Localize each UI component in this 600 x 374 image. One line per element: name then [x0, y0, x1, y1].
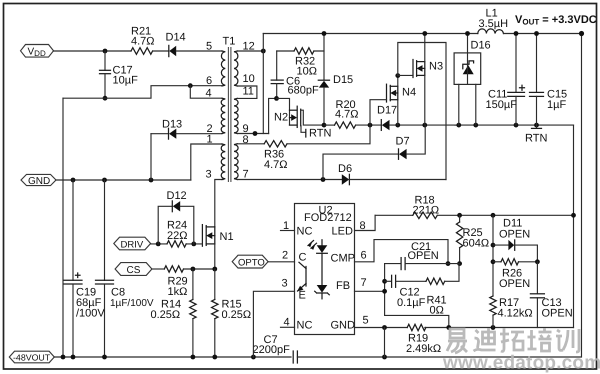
svg-text:E: E [299, 290, 306, 302]
svg-text:RTN: RTN [309, 128, 331, 140]
node junction R18/R17 column [491, 213, 496, 218]
diode D14 [166, 31, 186, 56]
node junction DRIV/D12 left [156, 242, 161, 247]
svg-text:N1: N1 [220, 231, 234, 243]
node junction VDD/C17 [103, 49, 108, 54]
wire R32 right to rail stub [314, 34, 324, 52]
svg-text:3: 3 [282, 278, 288, 290]
node junction CS/R15/N1 [212, 267, 217, 272]
svg-text:RTN: RTN [525, 133, 547, 145]
svg-text:D13: D13 [162, 119, 182, 131]
node junction rail/C19 [71, 355, 76, 360]
wire VOUT rail right of L1 [504, 33, 582, 35]
svg-text:2: 2 [282, 250, 288, 262]
node junction pin12 [261, 49, 266, 54]
resistor R24 [167, 220, 187, 248]
resistor R15 [212, 269, 252, 357]
svg-text:4.12kΩ: 4.12kΩ [498, 308, 533, 320]
svg-text:7: 7 [361, 277, 367, 289]
svg-text:7: 7 [243, 169, 249, 181]
node junction C15 top/VOUT rail [534, 31, 539, 36]
svg-text:1kΩ: 1kΩ [168, 286, 188, 298]
node GND flag [21, 174, 56, 187]
node junction N4 source/rail [395, 123, 400, 128]
wire U2 pin8 LED to R18 [355, 215, 376, 232]
node junction N3 drain/VOUT rail [422, 31, 427, 36]
wire GND row down branch [384, 328, 386, 358]
transistor N2 [274, 98, 301, 127]
diode D15 [318, 51, 353, 125]
capacitor C15 [530, 34, 568, 126]
ground RTN below C15 [525, 125, 547, 144]
node junction R32/VOUT rail [322, 31, 327, 36]
resistor R21 [131, 26, 155, 55]
svg-text:FB: FB [336, 280, 350, 292]
watermark line 1 [447, 328, 579, 353]
wire CS to R29 [152, 268, 164, 270]
capacitor C6 [271, 51, 319, 98]
node junction C11 bottom [514, 123, 519, 128]
node junction GND/D13 [149, 178, 154, 183]
transistor N1 [202, 225, 233, 247]
wire pin4 branch [190, 86, 222, 99]
capacitor C13 [530, 262, 572, 328]
svg-text:C8: C8 [111, 287, 125, 299]
node junction R18/R25 [457, 213, 462, 218]
resistor R26 [493, 259, 537, 290]
svg-text:C: C [299, 252, 307, 264]
wire VOUT rail [263, 33, 478, 35]
node junction rail/U2 pin5 branch [382, 355, 387, 360]
svg-text:D12: D12 [167, 190, 187, 202]
diode D6 [338, 163, 446, 185]
svg-text:10: 10 [243, 73, 255, 85]
capacitor C19 [64, 180, 105, 357]
wire pin12 down to pin9 row [262, 51, 264, 134]
wire U2 pin3 E down to -48V rail [253, 278, 294, 358]
wire R21 to D14 [153, 50, 169, 52]
svg-text:www.edatop.com: www.edatop.com [442, 353, 600, 374]
svg-text:4: 4 [206, 88, 212, 100]
node junction C12 row left [382, 279, 387, 284]
svg-text:680pF: 680pF [288, 84, 319, 96]
wire N3 source down to rail [424, 75, 426, 125]
svg-text:6: 6 [361, 250, 367, 262]
node junction C17 bottom [103, 96, 108, 101]
resistor R20 [324, 99, 359, 128]
svg-text:0.25Ω: 0.25Ω [222, 309, 252, 321]
svg-text:OPEN: OPEN [542, 308, 573, 320]
svg-text:1µF/100V: 1µF/100V [110, 298, 154, 309]
node junction CMP/C21 row [446, 261, 451, 266]
node junction D16 right leg [473, 123, 478, 128]
node -48VOUT flag [9, 351, 54, 363]
node junction D16 left leg [456, 123, 461, 128]
svg-text:4.7Ω: 4.7Ω [335, 108, 359, 120]
svg-text:5: 5 [363, 315, 369, 327]
diode D12 [167, 190, 187, 212]
node junction D11 row [491, 243, 496, 248]
node junction rail/left vertical [61, 355, 66, 360]
inductor L1 [478, 8, 508, 34]
svg-text:10µF: 10µF [113, 75, 139, 87]
wire N4 source down [397, 100, 399, 125]
capacitor C21 [385, 241, 460, 270]
wire -48V rail left of C7 [54, 356, 291, 358]
LED inside U2 [321, 240, 323, 245]
wire N3 gate lead [398, 74, 413, 76]
svg-text:T1: T1 [223, 36, 236, 48]
ground RTN at N2 source [301, 126, 332, 140]
wire D12 loop right [180, 206, 194, 244]
wire pin9 up-jog to C6 node [269, 98, 277, 133]
wire N4 drain up [397, 76, 399, 87]
wire VDD row to R21 [54, 50, 132, 52]
wire R18 right to RTN column [437, 214, 573, 216]
node junction N2 drain/D15/R20 [322, 123, 327, 128]
resistor R41 [426, 264, 459, 317]
wire U2 pin1 stub [281, 220, 295, 232]
wire DRIV to R24 [151, 243, 167, 245]
capacitor C7 [253, 334, 298, 363]
svg-text:0.1µF: 0.1µF [397, 297, 426, 309]
svg-text:CS: CS [127, 265, 141, 276]
svg-text:NC: NC [297, 226, 313, 238]
svg-text:604Ω: 604Ω [463, 238, 490, 250]
svg-text:FOD2712: FOD2712 [304, 212, 352, 224]
node VDD flag [21, 45, 54, 58]
node junction N4 drain/N3 gate [395, 73, 400, 78]
node junction pin6/pin4 jog [188, 83, 193, 88]
svg-text:150µF: 150µF [486, 99, 518, 111]
capacitor C11 [486, 34, 525, 126]
wire pin12 row [237, 50, 263, 52]
node junction pin7/D7 branch [321, 177, 326, 182]
diode D16 module [454, 34, 491, 126]
wire left long vertical to -48V rail [62, 98, 64, 357]
svg-text:/100V: /100V [76, 308, 105, 320]
svg-text:N3: N3 [429, 61, 443, 73]
op-amp U2 FOD2712 optocoupler [295, 204, 356, 335]
resistor R29 [164, 266, 187, 298]
wire N4 gate lead [370, 100, 387, 125]
wire U2 pin5 GND row left [355, 315, 408, 328]
wire R36 to rail junction [287, 125, 370, 144]
node CS flag [115, 263, 152, 276]
svg-text:OPEN: OPEN [499, 278, 530, 290]
node junction C6 bottom [274, 96, 279, 101]
svg-text:D7: D7 [396, 136, 410, 148]
svg-text:LED: LED [332, 226, 353, 238]
svg-text:2.49kΩ: 2.49kΩ [406, 343, 441, 355]
svg-text:GND: GND [331, 320, 356, 332]
wire pin8 row to R36 [237, 143, 264, 145]
node junction R18/RTN column [571, 213, 576, 218]
svg-text:NC: NC [297, 320, 313, 332]
wire N3 gate over to D6 column [398, 43, 446, 180]
wire T1 pin3 to N1 drain [215, 180, 223, 227]
svg-text:1: 1 [283, 220, 289, 232]
svg-text:DRIV: DRIV [121, 239, 144, 250]
svg-text:OPEN: OPEN [499, 229, 530, 241]
capacitor C12 [385, 275, 426, 309]
svg-text:GND: GND [28, 176, 50, 187]
wire pin7 row [237, 179, 341, 181]
wire RTN rail down right side [573, 125, 575, 327]
svg-text:N4: N4 [402, 87, 416, 99]
svg-text:4.7Ω: 4.7Ω [131, 36, 155, 48]
svg-text:1: 1 [207, 134, 213, 146]
wire D14 to T1 pin5 [176, 50, 222, 52]
node junction rail/C8 [102, 355, 107, 360]
node junction R26 row [491, 259, 496, 264]
node junction C15 bottom [534, 123, 539, 128]
svg-text:D17: D17 [377, 105, 397, 117]
svg-text:3.5µH: 3.5µH [479, 18, 509, 30]
node junction N3 source/D7/rail [422, 123, 427, 128]
diode D13 [151, 119, 222, 140]
wire -48V rail right of C7 to VOUT column [297, 34, 581, 358]
node junction GND/C19 [71, 178, 76, 183]
wire RTN rail right part [455, 124, 574, 126]
wire N2 drain to rail node [301, 110, 324, 125]
wire C21 left corner down [384, 264, 386, 316]
phototransistor inside U2 [305, 267, 307, 287]
svg-text:D16: D16 [471, 40, 491, 52]
resistor R25 [456, 215, 489, 263]
resistor R17 [490, 215, 533, 327]
node junction pin9 [253, 131, 258, 136]
transistor N4 [387, 84, 417, 102]
diode D7 [323, 125, 425, 179]
wire FB jog down to GND row [385, 315, 449, 327]
svg-text:OPEN: OPEN [408, 250, 439, 262]
svg-text:5: 5 [206, 41, 212, 53]
resistor R18 [413, 195, 440, 219]
svg-text:3: 3 [206, 169, 212, 181]
svg-text:OPTO: OPTO [238, 257, 265, 268]
wire D12 loop left [158, 206, 172, 244]
wire R18 row [375, 214, 413, 216]
node junction GND row/down branch [382, 325, 387, 330]
node junction rail/R15 [212, 355, 217, 360]
node junction D16 top/VOUT rail [465, 31, 470, 36]
node junction rail/R14 [191, 355, 196, 360]
svg-text:8: 8 [360, 220, 366, 232]
wire OPTO to U2 pin2 [268, 250, 294, 262]
wire R24 to N1 gate [186, 243, 202, 245]
wire U2 pin7 FB row [355, 277, 385, 291]
resistor R36 [264, 141, 288, 171]
transistor N3 [413, 60, 443, 78]
svg-text:221Ω: 221Ω [413, 205, 440, 217]
wire R32 branch row [277, 50, 294, 52]
FB reference diode inside U2 [317, 285, 328, 293]
svg-text:0.25Ω: 0.25Ω [151, 309, 181, 321]
diode D11 [493, 218, 537, 262]
svg-text:-48VOUT: -48VOUT [13, 352, 51, 362]
wire R20 to D17 [356, 124, 382, 126]
wire pin10-pin11 jog [237, 86, 257, 98]
transformer T1 [206, 36, 255, 183]
svg-text:N2: N2 [274, 112, 288, 124]
wire D13 branch vertical [150, 134, 152, 180]
node OPTO flag [232, 255, 268, 268]
resistor R19 [406, 324, 441, 355]
node VOUT terminal [579, 31, 584, 36]
svg-text:0Ω: 0Ω [430, 305, 444, 317]
svg-text:11: 11 [243, 86, 254, 98]
wire R29 to N1 source node [184, 268, 215, 270]
svg-text:D15: D15 [333, 74, 353, 86]
capacitor C8 [96, 180, 154, 357]
capacitor C17 [100, 51, 139, 98]
svg-text:4.7Ω: 4.7Ω [264, 159, 288, 171]
wire row y98 from left corner to jog [63, 86, 222, 99]
svg-text:22Ω: 22Ω [167, 230, 187, 242]
resistor R14 [151, 269, 197, 357]
wire U2 pin6 CMP jog to C21 row [355, 240, 449, 264]
svg-text:D6: D6 [338, 163, 352, 175]
node junction FB row [382, 289, 387, 294]
node DRIV flag [114, 237, 151, 250]
diode D17 [377, 105, 459, 131]
node junction FB jog/GND row [446, 325, 451, 330]
node junction R36/N4 gate [368, 123, 373, 128]
node junction R17 bottom [491, 325, 496, 330]
node junction C11 top/VOUT rail [514, 31, 519, 36]
wire GND row right of R19 [425, 327, 574, 329]
wire pin9 row [237, 133, 268, 135]
svg-text:CMP: CMP [331, 253, 355, 265]
node junction R24/D12 right [191, 242, 196, 247]
wire N1 source down to CS node [214, 244, 216, 269]
svg-text:4: 4 [284, 317, 290, 329]
wire U2 pin4 stub [281, 317, 295, 329]
node junction CS/R14 [191, 267, 196, 272]
node junction rail/U2 pin3 [251, 355, 256, 360]
resistor R32 [294, 48, 317, 78]
node junction GND/C8 [102, 178, 107, 183]
svg-text:D14: D14 [166, 31, 186, 43]
wire GND rail [56, 179, 191, 181]
wire pin12 up to VOUT rail corner [262, 34, 264, 52]
svg-text:1µF: 1µF [547, 99, 566, 111]
node junction R26/C13 [535, 259, 540, 264]
svg-text:6: 6 [206, 75, 212, 87]
wire N3 drain up to VOUT rail [424, 34, 426, 62]
svg-text:VDD: VDD [28, 46, 46, 58]
wire pin1 to GND corner [191, 144, 222, 180]
node junction R25/C21 row [457, 261, 462, 266]
svg-text:2200pF: 2200pF [253, 344, 291, 356]
